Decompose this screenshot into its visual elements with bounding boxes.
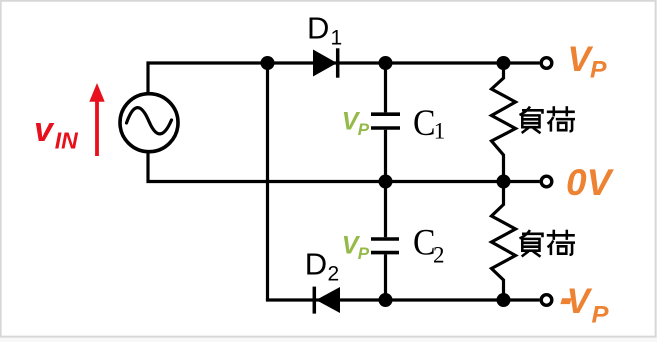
svg-text:D: D (307, 11, 329, 46)
label -VP orange (560, 282, 609, 328)
AC source V1 (120, 94, 178, 152)
resistor R1 (top load) (492, 63, 516, 182)
label 0V orange (566, 162, 615, 203)
svg-text:2: 2 (433, 242, 445, 267)
wire middle: source bottom lead + 0V rail (148, 152, 540, 182)
svg-text:P: P (358, 120, 370, 139)
label D2 (305, 247, 339, 286)
wire vertical branch to D2 (266, 63, 269, 300)
svg-text:2: 2 (328, 263, 340, 286)
junction dot bottom C2 (379, 293, 393, 307)
capacitor C1 (371, 114, 400, 128)
svg-text:V: V (567, 282, 593, 321)
junction dot top R1 (497, 56, 511, 70)
diode D1 (313, 48, 338, 77)
svg-text:D: D (305, 247, 327, 282)
label load 負荷 bottom (520, 230, 576, 257)
label C1 (413, 103, 445, 144)
svg-text:P: P (592, 301, 610, 328)
junction dot top-left (261, 56, 275, 70)
label VP green C2 (342, 232, 370, 263)
red arrow vIN (89, 83, 104, 156)
svg-text:P: P (358, 244, 370, 263)
wire bottom rail (266, 298, 540, 301)
label C2 (413, 222, 445, 267)
svg-text:v: v (34, 111, 55, 149)
junction dot top C1 (379, 56, 393, 70)
terminal -VP (541, 295, 552, 306)
terminal VP (541, 58, 552, 69)
wire C1 branch (384, 63, 387, 182)
wire C2 branch (384, 182, 387, 301)
svg-text:IN: IN (55, 128, 78, 154)
terminal 0V (541, 176, 552, 187)
svg-text:0V: 0V (566, 162, 615, 203)
label VP orange (568, 40, 608, 83)
label load 負荷 top (520, 106, 576, 133)
junction dot mid R (497, 175, 511, 189)
capacitor C2 (371, 239, 399, 253)
diode D2 (314, 287, 340, 314)
junction dot mid C1C2 (379, 175, 393, 189)
svg-text:C: C (413, 103, 436, 144)
svg-text:1: 1 (331, 27, 343, 50)
label VP green C1 (342, 107, 370, 139)
resistor R2 (bottom load) (492, 182, 516, 301)
wire top: source top lead + top rail (148, 63, 540, 93)
junction dot bottom R2 (497, 293, 511, 307)
svg-text:P: P (590, 56, 608, 83)
label D1 (307, 11, 342, 50)
svg-text:1: 1 (434, 119, 446, 144)
label vIN (34, 111, 78, 154)
